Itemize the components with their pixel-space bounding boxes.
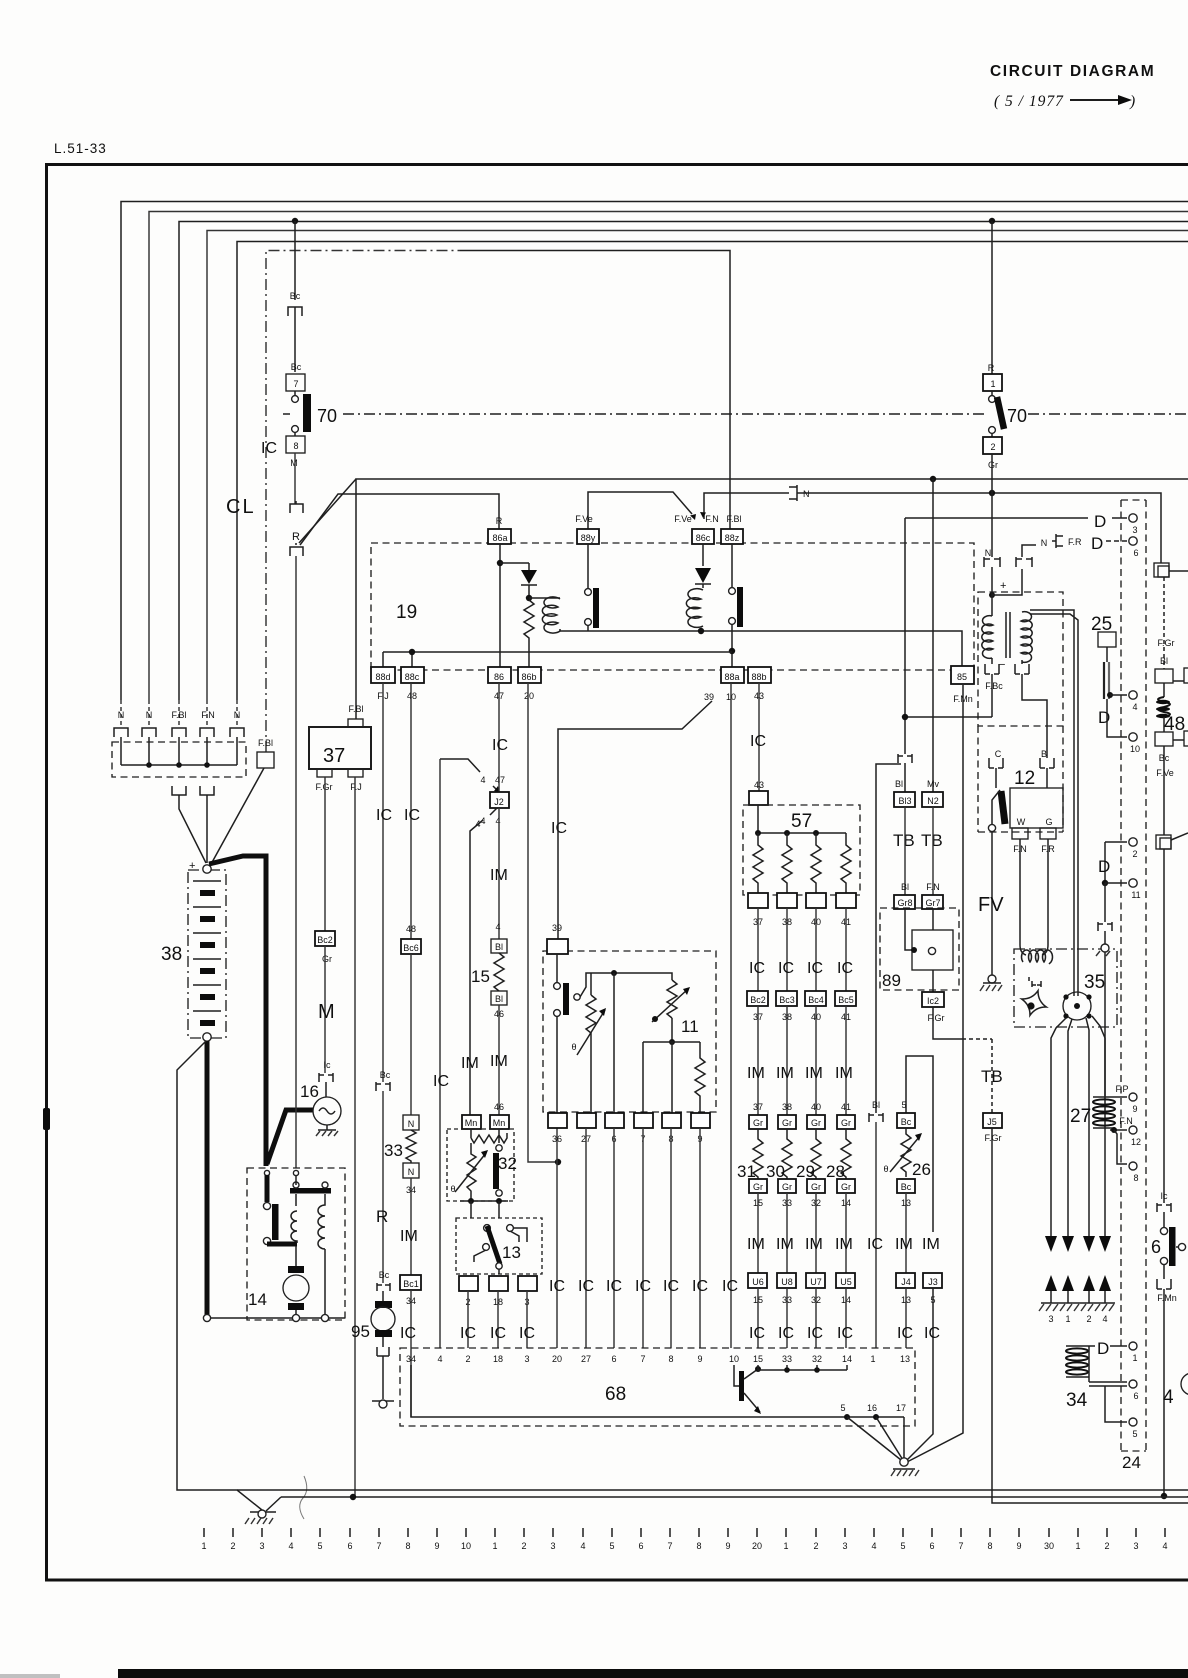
wire 36-terminal down to 68 pin20 — [556, 1128, 558, 1348]
svg-text:F.Ve: F.Ve — [575, 514, 593, 524]
svg-text:C: C — [995, 749, 1002, 759]
starter contact — [264, 1170, 269, 1175]
svg-text:86a: 86a — [492, 533, 507, 543]
wire fuel-gauge link x906-x933 — [906, 1056, 933, 1232]
connector N on FR link — [1016, 557, 1032, 567]
wires 32 into 13 — [471, 1201, 499, 1218]
wire 34 to connector 1 — [1089, 1345, 1127, 1347]
svg-text:IM: IM — [461, 1055, 479, 1072]
wire 27 to connector 12 — [1110, 1129, 1127, 1131]
wire 88b 43-column — [758, 683, 760, 791]
svg-text:B: B — [1041, 749, 1047, 759]
wire F.Mn column x963 to ground fan — [907, 685, 963, 1462]
coil relay1 — [529, 597, 560, 599]
svg-text:N: N — [118, 710, 125, 720]
svg-text:Ic: Ic — [323, 1060, 331, 1070]
svg-text:IC: IC — [692, 1278, 708, 1295]
svg-text:33: 33 — [782, 1354, 792, 1364]
fuse R inline connector lower — [290, 543, 303, 556]
svg-text:+: + — [1000, 580, 1006, 592]
rheostat in 32 — [467, 1143, 476, 1201]
svg-text:Bc: Bc — [379, 1270, 390, 1280]
terminal box 7 — [286, 374, 305, 391]
svg-text:IC: IC — [924, 1325, 940, 1342]
wires 12 tabs to pickup coil — [1020, 839, 1048, 955]
rheostat 2 in 11 — [667, 980, 677, 1018]
connector H2 right edge — [1156, 835, 1171, 849]
svg-text:Gr: Gr — [782, 1118, 792, 1128]
starter motor M — [288, 1266, 304, 1273]
svg-text:20: 20 — [552, 1354, 562, 1364]
svg-text:41: 41 — [841, 1102, 851, 1112]
wires 57 columns drop1 — [758, 908, 846, 991]
svg-text:IC: IC — [722, 1278, 738, 1295]
svg-text:IM: IM — [776, 1236, 794, 1253]
ground FV — [988, 975, 996, 983]
svg-text:IC: IC — [549, 1278, 565, 1295]
svg-text:20: 20 — [752, 1541, 762, 1551]
svg-text:Gr: Gr — [753, 1182, 763, 1192]
svg-text:86: 86 — [494, 672, 504, 682]
svg-text:4: 4 — [580, 1541, 585, 1551]
headlamp 4 partial circle — [1181, 1373, 1188, 1395]
svg-text:θ: θ — [883, 1164, 888, 1174]
arrow into J2 — [493, 786, 499, 792]
svg-text:R: R — [376, 1207, 388, 1226]
bus in 57 — [758, 805, 846, 833]
solenoid coil 1 — [291, 1211, 297, 1243]
svg-text:1: 1 — [990, 379, 995, 389]
svg-text:IM: IM — [776, 1065, 794, 1082]
svg-text:D: D — [1098, 708, 1110, 727]
svg-text:Ic2: Ic2 — [927, 996, 939, 1006]
primary coil — [991, 593, 993, 616]
brackets below connector block — [172, 786, 186, 795]
svg-text:IM: IM — [895, 1236, 913, 1253]
svg-text:F.J: F.J — [350, 782, 362, 792]
switch in 11 — [556, 954, 558, 982]
control unit 68 dashed box — [400, 1348, 915, 1426]
motor 95 — [375, 1301, 392, 1308]
wire D3 column x905 — [904, 518, 906, 754]
svg-text:32: 32 — [498, 1154, 517, 1173]
connector Bl3 — [894, 792, 915, 807]
switch 6 — [1160, 1227, 1167, 1234]
svg-text:IC: IC — [635, 1278, 651, 1295]
svg-text:J2: J2 — [494, 797, 504, 807]
heavy cable battery plus to starter — [209, 856, 266, 1166]
connector Gr7 — [922, 895, 943, 909]
svg-text:9: 9 — [1016, 1541, 1021, 1551]
terminal 88a — [721, 667, 744, 683]
wire relay outputs rail y631 — [560, 631, 962, 667]
svg-text:85: 85 — [957, 672, 967, 682]
wires 13 to 68 — [468, 1291, 527, 1348]
svg-text:θ: θ — [450, 1184, 455, 1194]
distributor 35 dash-dot box — [1014, 949, 1117, 1027]
wire 85 F.Mn drop from relay rail — [904, 517, 906, 519]
svg-text:3: 3 — [550, 1541, 555, 1551]
svg-text:D: D — [1098, 857, 1110, 876]
svg-text:86c: 86c — [696, 533, 711, 543]
svg-text:U5: U5 — [840, 1277, 852, 1287]
wire secondary HT lead — [1030, 610, 1078, 996]
svg-text:14: 14 — [842, 1354, 852, 1364]
svg-text:4: 4 — [495, 922, 500, 932]
svg-text:5: 5 — [901, 1100, 906, 1110]
core lines — [1006, 612, 1010, 658]
svg-text:F.Bl: F.Bl — [348, 704, 363, 714]
svg-text:IC: IC — [837, 960, 853, 977]
washer switch 13 dashed box — [456, 1218, 542, 1274]
svg-text:4: 4 — [475, 819, 480, 829]
svg-text:IM: IM — [835, 1065, 853, 1082]
transistor in 68 — [734, 1365, 740, 1386]
resistors in 57 — [753, 833, 851, 893]
wire 86c into relay2 — [702, 544, 704, 566]
ground bottom-left — [250, 1511, 276, 1513]
wire 8 to fuse R — [294, 453, 296, 504]
svg-text:4: 4 — [1162, 1541, 1167, 1551]
svg-text:57: 57 — [791, 811, 812, 832]
svg-text:F.Gr: F.Gr — [1158, 638, 1175, 648]
lamp unit 48 connector upper — [1155, 669, 1173, 683]
svg-text:2: 2 — [1104, 1541, 1109, 1551]
J2 output stub — [490, 808, 497, 815]
svg-text:9: 9 — [725, 1541, 730, 1551]
wire 25 to connector 4 — [1110, 694, 1127, 696]
wire 35 to tachometer coil — [1104, 952, 1106, 1096]
connector bracket x383 lower — [377, 1283, 390, 1301]
wire F.Ve down to H2 — [1163, 746, 1165, 835]
diode relay2 — [695, 568, 711, 583]
svg-text:4: 4 — [437, 1354, 442, 1364]
connector Bc2 on F.Gr line — [315, 931, 335, 946]
svg-text:N: N — [234, 710, 241, 720]
terminal 86 — [488, 667, 511, 683]
pin labels 68 top — [406, 1354, 910, 1364]
svg-text:Gr: Gr — [841, 1182, 851, 1192]
svg-text:IC: IC — [433, 1073, 449, 1090]
node F.J on L2 — [350, 1494, 356, 1500]
wire bus2 — [149, 212, 1188, 701]
svg-text:40: 40 — [811, 1102, 821, 1112]
svg-text:IC: IC — [807, 960, 823, 977]
svg-text:10: 10 — [461, 1541, 471, 1551]
svg-text:13: 13 — [502, 1243, 521, 1262]
coil bottom brackets F.Bc — [985, 658, 999, 674]
svg-text:Gr: Gr — [322, 954, 332, 964]
connector bracket x383 — [376, 1082, 390, 1091]
rheostat theta in 11 — [586, 973, 596, 1055]
svg-text:14: 14 — [248, 1290, 267, 1309]
svg-text:8: 8 — [293, 441, 298, 451]
svg-text:J3: J3 — [928, 1277, 938, 1287]
connectors Bc2 Bc3 Bc4 Bc5 — [747, 991, 768, 1006]
svg-text:N: N — [803, 489, 810, 499]
svg-text:R: R — [496, 516, 503, 526]
svg-text:88z: 88z — [725, 533, 740, 543]
svg-text:CIRCUIT DIAGRAM: CIRCUIT DIAGRAM — [990, 63, 1155, 80]
svg-text:Bl: Bl — [872, 1100, 880, 1110]
battery plates — [193, 881, 221, 1026]
starter 14 dashed box — [247, 1168, 345, 1320]
svg-text:70: 70 — [317, 406, 337, 426]
node W1 x933 — [930, 476, 936, 482]
svg-text:FV: FV — [978, 894, 1004, 916]
svg-text:U8: U8 — [781, 1277, 793, 1287]
contact relay2 — [731, 544, 733, 588]
svg-text:1: 1 — [492, 1541, 497, 1551]
svg-text:Gr7: Gr7 — [925, 898, 940, 908]
node F.N rail x992 — [989, 490, 995, 496]
connector J3 — [923, 1273, 942, 1288]
svg-text:10: 10 — [729, 1354, 739, 1364]
connector bracket x876 — [869, 1113, 883, 1122]
wire 95 to insulated ground — [382, 1356, 384, 1399]
wire branch to FR link — [992, 569, 1022, 595]
svg-text:Bc: Bc — [380, 1070, 391, 1080]
lamp coil 48 — [1163, 683, 1165, 697]
svg-text:N: N — [146, 710, 153, 720]
svg-text:1: 1 — [783, 1541, 788, 1551]
svg-text:3: 3 — [1048, 1314, 1053, 1324]
svg-text:4: 4 — [495, 816, 500, 826]
wire 34 to connector 5 — [1105, 1386, 1127, 1422]
svg-text:F.P: F.P — [1115, 1084, 1128, 1094]
engine ground wire under 14 — [207, 1317, 345, 1319]
bracket B — [1040, 758, 1054, 788]
connector N inline on F.N rail — [789, 485, 801, 501]
svg-text:34: 34 — [406, 1354, 416, 1364]
connector Gr8 — [894, 895, 915, 909]
svg-text:Bl: Bl — [895, 779, 903, 789]
wires 57 columns drop2 — [758, 1006, 846, 1115]
svg-text:18: 18 — [493, 1354, 503, 1364]
svg-text:15: 15 — [753, 1354, 763, 1364]
svg-text:D: D — [1097, 1339, 1109, 1358]
wire W1 diagonal to fuse R — [299, 479, 356, 543]
connector Bc lower x906 — [897, 1179, 915, 1193]
gauge unit 11 dashed box — [543, 951, 716, 1112]
connector N upper — [403, 1115, 419, 1130]
svg-text:Ic: Ic — [1160, 1191, 1168, 1201]
svg-text:11: 11 — [681, 1017, 699, 1036]
connector block dashed box — [112, 742, 246, 777]
svg-text:F.Bl: F.Bl — [726, 514, 741, 524]
svg-text:IC: IC — [490, 1325, 506, 1342]
svg-text:88c: 88c — [405, 672, 420, 682]
svg-text:CL: CL — [226, 496, 256, 518]
svg-text:43: 43 — [754, 780, 764, 790]
wire rheo2 to node — [671, 1018, 673, 1042]
svg-text:F.Ve: F.Ve — [674, 514, 692, 524]
wire heater feed x470 — [470, 820, 483, 1115]
cam in 35 — [1018, 987, 1051, 1020]
svg-text:N: N — [1041, 538, 1048, 548]
lamp unit 48 connector lower — [1163, 717, 1165, 732]
node 20-39 join — [555, 1159, 561, 1165]
svg-text:70: 70 — [1007, 406, 1027, 426]
connector Bl upper x499 — [491, 939, 507, 953]
wire Mv column x933 — [932, 479, 934, 792]
svg-text:IC: IC — [551, 820, 567, 837]
svg-text:9: 9 — [1132, 1104, 1137, 1114]
svg-text:Gr: Gr — [988, 460, 998, 470]
wires 57 columns into 68 — [758, 1288, 846, 1348]
terminal 86b — [518, 667, 541, 683]
resistor 33 — [406, 1130, 416, 1163]
heavy cable alternator feed — [267, 1110, 313, 1164]
svg-text:W: W — [1017, 817, 1026, 827]
svg-text:Gr: Gr — [782, 1182, 792, 1192]
wire R fuse down to starter box 14 — [295, 556, 297, 1168]
plug lead arrowheads — [1045, 1236, 1111, 1252]
svg-text:IC: IC — [400, 1325, 416, 1342]
svg-text:4: 4 — [1132, 702, 1137, 712]
svg-text:Bc: Bc — [291, 362, 302, 372]
wire ignition-feed column x440 — [440, 759, 480, 772]
svg-text:68: 68 — [605, 1384, 626, 1405]
svg-text:48: 48 — [407, 691, 417, 701]
connectors U6 U8 U7 U5 — [748, 1273, 767, 1288]
resistors 31 30 29 28 — [753, 1129, 851, 1187]
svg-text:Mn: Mn — [493, 1118, 506, 1128]
svg-text:Bc1: Bc1 — [403, 1279, 419, 1289]
regulator 37 — [348, 719, 363, 727]
connector brackets on strip — [114, 728, 128, 737]
svg-text:L.51-33: L.51-33 — [54, 141, 107, 156]
wire 27 to connector 8 — [1114, 1130, 1127, 1164]
svg-text:F.Bl: F.Bl — [258, 738, 273, 748]
alternator ground — [318, 1125, 336, 1130]
svg-text:6: 6 — [638, 1541, 643, 1551]
terminal 88c — [401, 667, 424, 683]
ignition module dashed box lower — [978, 726, 1063, 832]
chassis rail L1 — [237, 1489, 1188, 1491]
svg-text:IM: IM — [805, 1065, 823, 1082]
svg-text:TB: TB — [981, 1067, 1003, 1086]
battery plus terminal — [203, 865, 211, 873]
ignition module 12 — [1010, 788, 1063, 828]
svg-text:Gr: Gr — [753, 1118, 763, 1128]
svg-text:27: 27 — [581, 1354, 591, 1364]
node bus3-right switch feed — [989, 218, 995, 224]
node bus3-left switch feed — [292, 218, 298, 224]
svg-text:N: N — [985, 548, 992, 558]
svg-text:Bc: Bc — [290, 291, 301, 301]
wire bus6 CL line — [266, 251, 460, 753]
svg-text:6: 6 — [1133, 1391, 1138, 1401]
svg-text:F.Bc: F.Bc — [985, 681, 1003, 691]
svg-text:19: 19 — [396, 602, 417, 623]
svg-text:7: 7 — [667, 1541, 672, 1551]
bottom rail of 32 — [460, 1200, 508, 1202]
connector Bc1 — [400, 1275, 421, 1290]
svg-text:G: G — [1045, 817, 1052, 827]
svg-text:IC: IC — [897, 1325, 913, 1342]
svg-text:J5: J5 — [987, 1117, 997, 1127]
heater resistors 57 dashed box — [743, 805, 860, 895]
harness dashed box right — [1121, 500, 1146, 1451]
internal bus 68 — [411, 1365, 904, 1417]
wire FV to ground — [991, 832, 993, 976]
svg-text:88b: 88b — [751, 672, 766, 682]
svg-text:4: 4 — [480, 775, 485, 785]
terminal 86a — [488, 529, 511, 544]
connector N2 — [922, 792, 943, 807]
svg-text:F.Bl: F.Bl — [171, 710, 186, 720]
svg-text:F.Gr: F.Gr — [928, 1013, 945, 1023]
terminal box 1 — [983, 374, 1002, 391]
chassis rail L2 — [281, 1496, 1188, 1497]
svg-text:3: 3 — [842, 1541, 847, 1551]
wire F.N rail y493 — [704, 493, 789, 519]
svg-text:IM: IM — [490, 1053, 508, 1070]
svg-text:N2: N2 — [927, 796, 939, 806]
rotor in 35 — [1063, 992, 1091, 1020]
terminal 88y — [577, 529, 599, 544]
ground 95 — [372, 1400, 394, 1402]
connector J4 — [896, 1273, 915, 1288]
svg-text:R: R — [292, 531, 300, 543]
fuse R inline connector upper — [290, 501, 303, 513]
svg-text:( 5 / 1977: ( 5 / 1977 — [994, 93, 1064, 110]
bracket below switch 6 — [1157, 1265, 1171, 1289]
wire bracket to wiper motor 95 — [382, 1091, 384, 1283]
svg-text:IC: IC — [404, 807, 420, 824]
svg-text:17: 17 — [896, 1403, 906, 1413]
svg-text:+: + — [189, 860, 195, 872]
svg-text:5: 5 — [900, 1541, 905, 1551]
svg-text:F.Gr: F.Gr — [316, 782, 333, 792]
coil relay2 — [702, 584, 704, 588]
svg-text:IC: IC — [261, 440, 277, 457]
wires 11 terminals to 68 — [586, 1128, 700, 1348]
svg-text:Mn: Mn — [465, 1118, 478, 1128]
nodes on internal bus — [844, 1414, 850, 1420]
solenoid top bar — [290, 1188, 331, 1194]
connector circle 11 — [1102, 880, 1108, 886]
connector Bc6 — [401, 939, 421, 954]
node relay1 — [497, 560, 503, 566]
node on chassis rail — [1161, 1493, 1167, 1499]
svg-text:5: 5 — [609, 1541, 614, 1551]
relay coil 34 — [1066, 1346, 1089, 1382]
svg-text:): ) — [1129, 93, 1135, 110]
svg-text:6: 6 — [1151, 1237, 1161, 1257]
svg-text:9: 9 — [434, 1541, 439, 1551]
svg-text:2: 2 — [465, 1354, 470, 1364]
svg-text:Bc2: Bc2 — [750, 995, 766, 1005]
wire secondary B link — [1022, 674, 1047, 758]
terminals under 11 — [548, 1113, 567, 1128]
svg-text:12: 12 — [1131, 1137, 1141, 1147]
bracket C — [989, 758, 1003, 788]
svg-text:Bl: Bl — [495, 994, 503, 1004]
svg-text:F.R: F.R — [1068, 537, 1082, 547]
svg-text:32: 32 — [812, 1354, 822, 1364]
svg-text:TB: TB — [921, 831, 943, 850]
svg-text:88d: 88d — [375, 672, 390, 682]
svg-text:39: 39 — [552, 923, 562, 933]
svg-text:35: 35 — [1084, 972, 1105, 993]
svg-text:46: 46 — [494, 1102, 504, 1112]
svg-text:N: N — [408, 1167, 415, 1177]
wire bus3 drop to switch 70 left — [294, 221, 296, 300]
svg-text:3: 3 — [524, 1354, 529, 1364]
svg-text:U7: U7 — [810, 1277, 822, 1287]
